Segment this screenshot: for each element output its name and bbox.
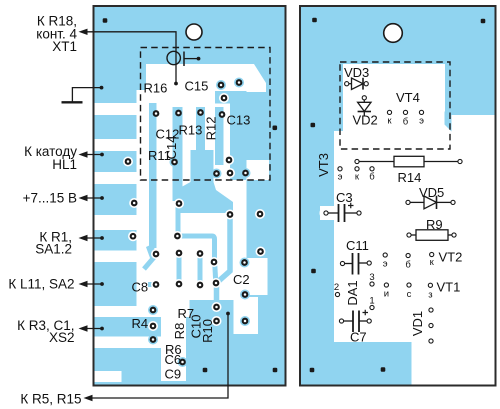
svg-text:DA1: DA1 [345, 280, 360, 305]
etched white: comb bar 2 [95, 139, 137, 151]
svg-text:ХТ1: ХТ1 [52, 39, 77, 54]
margin arrows [85, 155, 102, 329]
pad row y113 [153, 110, 160, 117]
trace Te wide column [230, 95, 247, 180]
wide centre column trace [191, 150, 214, 182]
svg-text:C8: C8 [132, 280, 149, 295]
svg-text:R16: R16 [144, 81, 168, 96]
svg-text:C13: C13 [227, 113, 251, 128]
svg-text:2: 2 [334, 282, 339, 293]
svg-text:C15: C15 [185, 79, 209, 94]
capacitor C7 [363, 310, 369, 316]
trace x200 column [198, 254, 203, 285]
etched white: comb bar 5 [95, 251, 140, 263]
diode VD2 [362, 96, 366, 100]
copper island under C15 pads [215, 91, 247, 104]
trace Ta [149, 103, 157, 248]
etched white: bottom-left bar [95, 371, 122, 382]
trace x179 column lower [177, 253, 182, 284]
resistor R14 [359, 161, 394, 163]
etched white: central region [146, 64, 247, 95]
trace pad to pad short [215, 263, 216, 283]
dashed box board 2 [340, 62, 450, 149]
pads C8/C2 rows [151, 248, 221, 290]
trace to C8 pad [148, 282, 156, 287]
ground symbol [62, 101, 83, 103]
bottom wire K R5,R15 [90, 314, 228, 399]
etched white: top-right diagonal tab [246, 64, 266, 92]
diode VD3 [349, 78, 364, 90]
svg-text:VT3: VT3 [316, 153, 331, 177]
svg-text:э: э [338, 172, 343, 183]
svg-text:C6: C6 [165, 352, 182, 367]
svg-text:R12: R12 [204, 117, 219, 141]
pad holes (white centers) [127, 81, 262, 363]
svg-text:э: э [419, 116, 424, 127]
etched white: C10 right pocket [234, 297, 259, 334]
svg-text:VT4: VT4 [396, 90, 420, 105]
svg-text:+7...15 В: +7...15 В [23, 191, 77, 206]
pads left board [123, 78, 266, 368]
svg-text:R14: R14 [398, 170, 422, 185]
svg-text:К R5, R15: К R5, R15 [20, 392, 81, 407]
transistor case circle [167, 51, 180, 64]
svg-text:VT1: VT1 [437, 280, 461, 295]
etched white: comb bar 4 [95, 215, 140, 230]
wire from K R18 label [85, 32, 176, 84]
C3 left lead pocket [320, 206, 334, 220]
pads middle area [128, 198, 265, 241]
svg-text:VD2: VD2 [353, 113, 378, 128]
etched white: bottom column [161, 306, 186, 381]
svg-text:XS2: XS2 [49, 330, 75, 345]
svg-text:б: б [403, 117, 409, 128]
svg-text:с: с [407, 289, 412, 300]
svg-text:VD1: VD1 [410, 311, 425, 336]
svg-text:з: з [428, 290, 432, 301]
trace C8 diagonal [144, 255, 156, 269]
board 2 outline [300, 6, 496, 386]
svg-text:VD5: VD5 [419, 185, 444, 200]
trace Tc [196, 107, 205, 162]
white component area [334, 64, 495, 385]
blue chamfer wedge [445, 112, 452, 132]
svg-text:К L11, SA2: К L11, SA2 [8, 277, 74, 292]
etched white: comb bar 1 [95, 103, 137, 115]
pentagon flare trace [176, 182, 233, 213]
etched white: band R7 row [95, 306, 190, 317]
etched white: band below R4 [95, 337, 187, 349]
pad cluster near C15 [216, 78, 244, 91]
svg-text:б: б [369, 172, 375, 183]
margin labels [8, 14, 81, 407]
refs board 1 [132, 79, 251, 382]
board 1 outline [94, 6, 286, 386]
svg-text:C3: C3 [336, 190, 353, 205]
svg-text:R10: R10 [200, 319, 215, 343]
dashed box board 1 [141, 48, 271, 181]
trace Ta diagonal [146, 244, 157, 258]
svg-text:э: э [383, 259, 388, 270]
fixing dots board 1 [103, 18, 278, 372]
svg-text:VD3: VD3 [344, 65, 369, 80]
trace right column to C2 area [217, 206, 231, 301]
svg-text:R13: R13 [179, 123, 203, 138]
svg-text:HL1: HL1 [52, 157, 77, 172]
etched white: C2 pocket [240, 258, 268, 295]
mounting hole board 1 [186, 24, 202, 40]
svg-text:C2: C2 [233, 272, 250, 287]
mounting hole board 2 [384, 24, 403, 43]
fixing dots board 2 [310, 18, 486, 373]
svg-text:и: и [384, 289, 389, 300]
pads mid dashed row [123, 155, 234, 167]
bottom copper block [190, 300, 234, 329]
svg-text:C7: C7 [350, 330, 367, 345]
trace Tb [173, 107, 183, 201]
svg-text:VT2: VT2 [439, 250, 463, 265]
pads bottom area [148, 305, 250, 367]
svg-text:SA1.2: SA1.2 [35, 242, 72, 257]
svg-text:C9: C9 [165, 367, 182, 382]
svg-text:R8: R8 [172, 323, 187, 340]
svg-text:R4: R4 [132, 316, 149, 331]
svg-text:б: б [405, 260, 411, 271]
etched white: comb bar 3 [95, 172, 137, 184]
trace Td [215, 107, 224, 165]
svg-text:C11: C11 [346, 238, 369, 253]
case tab bar [183, 52, 185, 67]
svg-text:C14: C14 [164, 136, 179, 160]
etched white: right tab at dashed row [246, 160, 269, 180]
trace L from pad R13 area [178, 206, 215, 262]
